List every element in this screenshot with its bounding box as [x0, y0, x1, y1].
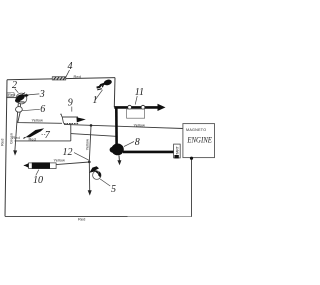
wire yellow from switch turning right to connector 9: [18, 112, 62, 123]
svg-text:Yellow: Yellow: [134, 123, 146, 128]
svg-text:12: 12: [63, 147, 73, 158]
wire corner drop from top border to bus junction: [113, 78, 116, 108]
node junction at fuse tap: [88, 161, 91, 164]
wire branch to thick bus: [71, 134, 116, 137]
wire bottom border (Red): [5, 215, 192, 217]
ignition switch SW2 (items 2/3): [15, 93, 29, 104]
wire green vertical with arrow: [15, 112, 18, 151]
wire yellow vertical with arrow: [89, 126, 91, 191]
svg-text:ENGINE: ENGINE: [187, 136, 212, 145]
wire ground stub below 8: [118, 155, 120, 160]
engine box: [183, 124, 215, 158]
rectifier 11: [127, 105, 145, 118]
wire thick bus vertical: [115, 107, 118, 145]
starter terminal box START: [174, 144, 181, 158]
wire from connector 9 down: [70, 124, 72, 141]
svg-text:Red: Red: [78, 217, 85, 222]
svg-text:1: 1: [93, 95, 98, 106]
svg-text:11: 11: [135, 87, 144, 98]
svg-text:Yellow: Yellow: [85, 139, 90, 151]
svg-text:6: 6: [40, 104, 45, 115]
leader for label 8: [124, 142, 134, 147]
connector ring 6: [16, 107, 23, 113]
spade connector 7: [23, 128, 44, 138]
svg-text:Red: Red: [74, 74, 81, 79]
arrowhead green wire: [13, 150, 17, 155]
wire thick bus to starter: [123, 151, 174, 154]
svg-text:2: 2: [12, 80, 17, 91]
leader for label 7: [42, 133, 46, 135]
key switch key SW1 (item 1) at top corner: [97, 79, 113, 90]
wire thick bus horizontal with arrow: [114, 106, 158, 109]
solenoid blob 8: [110, 144, 124, 156]
leader for label 2: [15, 89, 18, 93]
wire twin drop from switch: [17, 103, 19, 107]
svg-text:8: 8: [135, 137, 140, 148]
svg-text:7: 7: [45, 130, 51, 141]
node junction on yellow run: [90, 124, 93, 127]
arrowhead bus: [158, 104, 166, 111]
connector C4 on top border: [52, 77, 66, 80]
connector plug 9: [60, 114, 86, 124]
arrowhead yellow vertical: [88, 190, 92, 195]
key tag 5 on yellow wire: [89, 166, 101, 179]
leader for label 4: [66, 70, 70, 77]
wire red stub from left border to switch: [6, 97, 16, 99]
wire yellow main run to engine: [64, 124, 183, 128]
fuse holder 10: [24, 162, 56, 168]
leader for label 6: [22, 109, 39, 110]
node junction at engine bottom: [190, 157, 193, 160]
svg-text:Yellow: Yellow: [54, 157, 66, 162]
svg-text:Yellow: Yellow: [32, 118, 44, 123]
wire left border (Red): [5, 80, 7, 217]
leader for label 3: [28, 94, 39, 95]
wire red to connector 7: [15, 140, 71, 142]
leader for label 5: [100, 179, 110, 186]
svg-text:Red: Red: [12, 135, 19, 140]
svg-text:4: 4: [68, 61, 73, 72]
leader for label 10: [36, 170, 39, 176]
leader for label 1: [95, 90, 103, 100]
leader for label 11: [135, 96, 137, 105]
svg-text:10: 10: [33, 175, 43, 186]
arrowhead ground stub: [117, 160, 121, 165]
wire top border (Red): [7, 78, 115, 80]
svg-text:5: 5: [111, 184, 116, 195]
svg-text:Red: Red: [8, 92, 15, 97]
leader for label 12: [74, 153, 90, 161]
svg-text:Red: Red: [0, 139, 4, 146]
wire yellow from fuse to vertical: [56, 162, 89, 165]
leader for label 9: [71, 107, 73, 112]
svg-text:3: 3: [39, 89, 45, 100]
wire right border up to engine: [191, 158, 193, 217]
svg-text:MAGNETO: MAGNETO: [186, 128, 206, 132]
label Red (boxed, switch feed): [7, 92, 15, 97]
